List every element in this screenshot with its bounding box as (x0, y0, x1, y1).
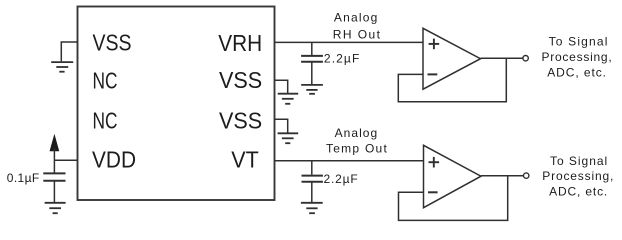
svg-text:VT: VT (231, 146, 259, 172)
svg-text:To Signal: To Signal (550, 154, 607, 168)
wire U3 output (481, 175, 523, 177)
svg-text:VDD: VDD (92, 146, 136, 172)
svg-text:VSS: VSS (219, 67, 262, 93)
net VT: wire from VT pin to op-amp U3 + input (275, 160, 424, 162)
ground (right upper VSS) (278, 94, 299, 104)
wire feedback U2 output to inverting input (398, 58, 506, 102)
wire VSS pin (right upper) to ground (275, 80, 288, 93)
ground (below C3) (301, 203, 323, 213)
capacitor C2 (2.2µF) on VRH (311, 42, 313, 55)
wire VSS pin to ground (top-left) (61, 42, 77, 61)
svg-text:2.2µF: 2.2µF (324, 52, 359, 66)
svg-text:Temp Out: Temp Out (326, 142, 387, 156)
svg-text:To Signal: To Signal (549, 35, 608, 49)
wire VDD pin to supply/capacitor node (54, 148, 77, 173)
svg-text:ADC, etc.: ADC, etc. (549, 184, 607, 198)
ground (top-left VSS) (51, 62, 73, 72)
svg-text:VSS: VSS (93, 30, 132, 56)
svg-text:2.2µF: 2.2µF (324, 172, 358, 186)
ground (right lower VSS) (278, 133, 299, 143)
svg-text:0.1µF: 0.1µF (7, 171, 39, 185)
wire C1 to ground (53, 181, 55, 203)
svg-text:VRH: VRH (218, 30, 262, 56)
svg-text:RH Out: RH Out (333, 27, 381, 41)
supply arrow (VDD) (50, 136, 58, 151)
svg-text:VSS: VSS (219, 107, 262, 133)
capacitor C1 (0.1µF) (43, 173, 65, 180)
op-amp U3 (temp buffer) (424, 145, 482, 207)
output terminal (Temp out) (524, 173, 529, 178)
svg-text:Processing,: Processing, (542, 169, 613, 183)
capacitor C3 (2.2µF) on VT (311, 161, 313, 175)
op-amp U3 non-inverting (+) input marking (429, 157, 440, 168)
wire VSS pin (right lower) to ground (275, 119, 288, 133)
svg-text:Analog: Analog (335, 126, 378, 140)
op-amp U3 inverting (−) input marking (428, 191, 438, 193)
svg-text:NC: NC (93, 107, 118, 133)
IC U1 (sensor package) (78, 7, 275, 201)
op-amp U2 (RH buffer) (423, 28, 481, 89)
op-amp U2 non-inverting (+) input marking (429, 39, 440, 50)
ground (below C2) (301, 85, 323, 94)
svg-text:ADC, etc.: ADC, etc. (547, 65, 606, 79)
output terminal (RH out) (523, 56, 528, 61)
op-amp U2 inverting (−) input marking (428, 73, 438, 75)
svg-text:NC: NC (93, 68, 118, 94)
svg-text:Analog: Analog (334, 11, 377, 25)
wire C3 to ground (311, 182, 313, 203)
svg-text:Processing,: Processing, (542, 50, 612, 64)
wire C2 to ground (311, 62, 313, 85)
wire feedback U3 output to inverting input (399, 176, 508, 221)
wire U2 output (481, 57, 523, 59)
net VRH: wire from VRH pin to op-amp U2 + input (275, 41, 424, 43)
ground (below C1) (45, 203, 66, 213)
